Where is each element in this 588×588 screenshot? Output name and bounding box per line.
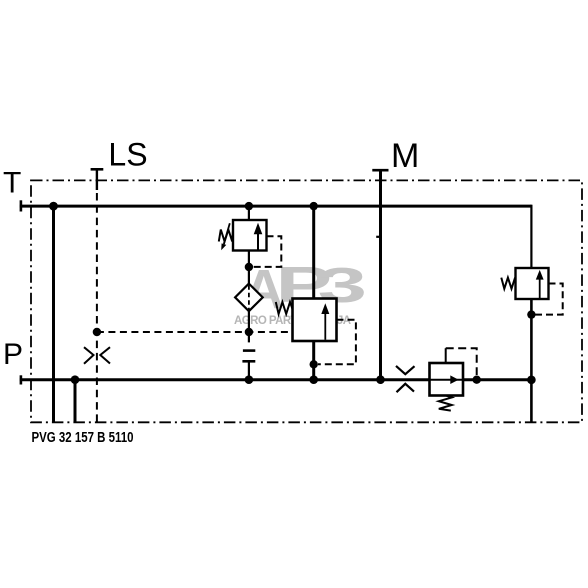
wire M vertical: [379, 170, 382, 380]
watermark logo AP3: [244, 256, 368, 320]
wire U2 outlet: [312, 341, 315, 380]
relief valve U1 adjust arrow: [221, 223, 230, 250]
check/relief valve U3 body: [430, 363, 464, 396]
plug symbol (two bars): [242, 351, 255, 362]
wire LS branch (dashed): [97, 331, 293, 333]
check/relief valve U3 pilot stub: [445, 348, 447, 363]
wire plug to P rail: [248, 361, 250, 379]
junction U1 outlet / pilot: [245, 263, 253, 271]
port T tick: [20, 200, 23, 211]
wire relief valve U1 feed: [248, 206, 250, 220]
check/relief valve U3 pilot line (dashed): [446, 348, 477, 375]
wire T rail: [20, 205, 532, 208]
junction LS branch left: [93, 328, 101, 336]
relief valve U1 spring: [219, 230, 233, 242]
svg-text:PVG 32 157 B 5110: PVG 32 157 B 5110: [32, 430, 134, 446]
svg-text:LS: LS: [108, 137, 147, 173]
junction T rail / U2 feed: [310, 202, 318, 210]
orifice O2 on P rail: [396, 366, 415, 392]
junction T rail / U1 feed: [245, 202, 253, 210]
wire P rail: [20, 378, 532, 381]
check/relief valve U3 arrow: [450, 375, 458, 384]
wire LS vertical (dashed): [96, 193, 98, 422]
wire T drop to bottom edge: [52, 206, 55, 422]
port LS stub: [96, 169, 98, 190]
reducing valve U2 spring: [276, 302, 293, 314]
junction T rail / T drop: [49, 202, 58, 211]
svg-text:P: P: [3, 338, 23, 371]
orifice O1 on LS line: [84, 347, 110, 364]
junction P rail / U2 outlet: [309, 375, 318, 384]
wire U1 outlet: [248, 251, 250, 285]
wire reducing valve U2 feed: [312, 206, 315, 298]
wire filter to LS branch: [248, 311, 250, 342]
junction P rail / M line: [376, 375, 385, 384]
junction LS branch / plug: [245, 328, 253, 336]
port P tick: [20, 375, 23, 384]
relief valve U4 pilot line (dashed): [536, 284, 563, 315]
reducing valve U2 flow arrow: [321, 303, 329, 340]
svg-text:M: M: [391, 137, 419, 175]
junction P rail / U3 pilot: [473, 376, 481, 384]
reducing valve U2 pilot line (dashed): [318, 320, 356, 365]
stub on M line: [376, 236, 380, 238]
junction U2 outlet / pilot: [310, 360, 318, 368]
wire P drop to bottom edge: [74, 380, 77, 423]
relief valve U4 spring: [501, 278, 515, 289]
junction P rail / plug branch: [245, 375, 254, 384]
svg-text:T: T: [3, 167, 21, 200]
junction P rail / P drop: [71, 375, 80, 384]
filter F1 inner dashed line: [248, 285, 250, 309]
relief valve U4 body: [516, 268, 549, 299]
filter F1 (diamond): [235, 284, 263, 312]
relief valve U4 flow arrow: [536, 270, 544, 299]
enclosure border (dash-dot): [31, 180, 582, 422]
port M tick: [372, 169, 388, 172]
junction U4 outlet / pilot: [527, 310, 535, 318]
reducing valve U2 body: [293, 299, 337, 342]
junction P rail / U4 line: [527, 376, 536, 385]
check/relief valve U3 spring: [439, 396, 452, 411]
wire U4 outlet to bottom edge: [530, 299, 533, 422]
relief valve U1 body: [233, 220, 267, 251]
relief valve U1 flow arrow: [254, 223, 263, 251]
wire T rail drop to right relief valve: [530, 205, 532, 268]
relief valve U1 pilot line (dashed): [253, 236, 281, 267]
check/relief valve U3 flow line: [430, 379, 464, 381]
port LS tick: [91, 168, 104, 171]
